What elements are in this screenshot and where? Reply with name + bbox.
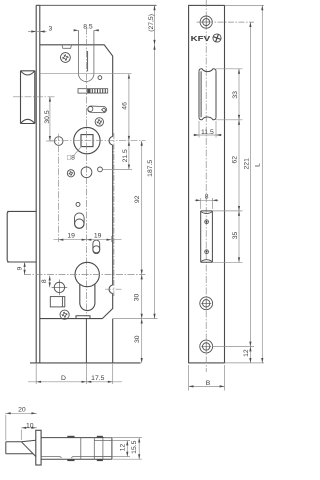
spring tabs: [67, 436, 103, 461]
bottom tab: [76, 316, 90, 319]
lower slot: [201, 211, 213, 262]
follower hub: [74, 127, 100, 153]
svg-text:D: D: [61, 375, 66, 382]
cylinder horizontal centerline: [24, 274, 146, 276]
svg-text:8: 8: [41, 279, 48, 283]
case seam line lower box: [85, 319, 87, 363]
svg-text:187.5: 187.5: [147, 160, 154, 177]
svg-text:19: 19: [67, 232, 75, 239]
svg-text:30.5: 30.5: [44, 110, 51, 123]
svg-text:17.5: 17.5: [91, 375, 104, 382]
svg-text:30: 30: [134, 335, 141, 343]
circle B on centerline: [81, 167, 92, 178]
svg-text:10: 10: [26, 422, 34, 429]
svg-text:46: 46: [122, 102, 129, 110]
notch arc upper (case right edge, hub level): [109, 137, 113, 146]
dim 35: [212, 211, 242, 262]
svg-text:35: 35: [232, 232, 239, 240]
dim 9: [24, 262, 26, 275]
screw boss mid-right: [95, 118, 103, 126]
top notch in case: [62, 45, 72, 49]
dim B: [189, 365, 225, 391]
svg-text:B: B: [206, 380, 211, 387]
slot pin lower: [205, 250, 209, 254]
dim 8 (slot width): [195, 198, 219, 209]
svg-text:8: 8: [205, 193, 209, 200]
top edge line of view: [40, 4, 157, 6]
screw boss top: [61, 53, 71, 63]
notch vertical centerline: [113, 133, 115, 296]
left circle (19/30.5 ref): [54, 137, 63, 146]
dim 11.5: [193, 121, 222, 138]
svg-text:9: 9: [16, 266, 23, 270]
svg-text:221: 221: [243, 158, 250, 170]
dim D / 17.5: [28, 363, 122, 384]
dim 30 upper: [141, 275, 143, 319]
capsule 1 with pin: [75, 213, 85, 229]
latch bolt side view: [21, 71, 35, 124]
deadbolt side view: [7, 211, 36, 262]
dim 33: [216, 69, 243, 120]
small circle D: [76, 202, 80, 206]
latch cutout: [199, 69, 216, 120]
dim 21.5: [103, 141, 132, 170]
latch centerline: [13, 96, 56, 98]
svg-text:30: 30: [133, 294, 140, 302]
svg-text:21.5: 21.5: [122, 149, 129, 162]
rear block lines: [94, 441, 112, 457]
main vertical centerline: [85, 28, 87, 317]
notch centerline: [105, 288, 122, 290]
dim 20: [5, 413, 37, 440]
top screw: [200, 16, 212, 28]
svg-text:62: 62: [232, 156, 239, 164]
svg-text:8.5: 8.5: [83, 23, 93, 30]
small circle A (46 ref): [98, 76, 102, 80]
leader square 8: [74, 146, 82, 155]
svg-text:L: L: [255, 163, 262, 167]
svg-text:15.5: 15.5: [131, 440, 138, 453]
faceplate bar: [36, 430, 41, 465]
dim (27.5): [154, 5, 156, 45]
dim 15.5: [104, 438, 142, 460]
latch tail line: [87, 51, 89, 71]
capsule 2 with pin: [93, 240, 100, 254]
follower slot: [79, 30, 94, 81]
notch arc lower (case right edge, cylinder level): [109, 285, 113, 294]
dim 221: [213, 22, 255, 346]
middle screw: [200, 297, 213, 310]
crosshair circle (8 ref): [52, 280, 68, 296]
svg-text:(27,5): (27,5): [148, 14, 155, 32]
dim 12 (plate): [225, 347, 265, 363]
dim 187.5: [154, 45, 156, 319]
dim 8.5: [74, 29, 99, 31]
dim 19 19: [54, 134, 122, 242]
faceplate side strip: [36, 5, 40, 363]
small circle C (21.5 ref): [98, 167, 103, 172]
screw boss bottom: [60, 310, 69, 319]
euro cylinder profile: [75, 262, 99, 310]
svg-text:11.5: 11.5: [201, 129, 214, 136]
faceplate outline: [189, 5, 225, 363]
spring: [78, 89, 108, 93]
bottom screw: [200, 340, 213, 353]
case bottom extension line: [113, 318, 158, 320]
dim 8 (cylinder offset): [49, 276, 51, 288]
dim 62: [212, 120, 242, 211]
svg-text:33: 33: [232, 91, 239, 99]
dim 3: [28, 31, 47, 33]
dim 92: [141, 141, 143, 275]
svg-text:3: 3: [49, 26, 53, 33]
dim 12 (latch): [113, 441, 131, 457]
dim 46: [41, 74, 132, 141]
latch body behind plate: [41, 438, 112, 460]
screw boss lower-left: [67, 170, 74, 177]
svg-text:20: 20: [18, 406, 26, 413]
logo screw symbol: [212, 33, 222, 43]
body inner horizontals: [41, 457, 112, 458]
slot pin upper: [205, 220, 209, 224]
lock case outline: [30, 45, 141, 363]
faceplate centerline: [205, 0, 207, 372]
svg-text:12: 12: [119, 444, 126, 452]
body inner verticals: [81, 438, 103, 460]
lever with pivot: [88, 106, 107, 113]
dim L: [225, 5, 265, 363]
svg-text:KFV: KFV: [191, 34, 211, 43]
square detail: [50, 297, 65, 307]
svg-text:12: 12: [243, 349, 250, 357]
dim 10: [21, 428, 37, 440]
svg-text:19: 19: [94, 232, 102, 239]
hub horizontal centerline: [50, 140, 146, 142]
latch tip: [6, 440, 36, 456]
svg-text:92: 92: [134, 195, 141, 203]
dim 30.5: [46, 97, 56, 141]
dim 30 lower: [141, 319, 143, 363]
svg-text:□8: □8: [67, 154, 75, 161]
